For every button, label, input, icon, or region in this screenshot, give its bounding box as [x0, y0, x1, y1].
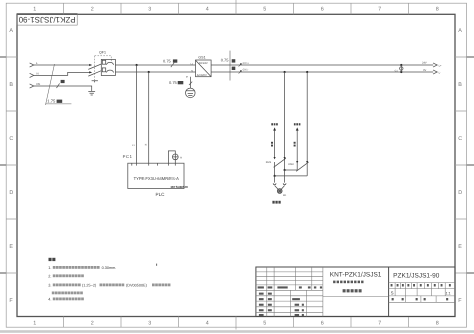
filter cap node dots — [400, 64, 402, 66]
svg-text:(1.25~2): (1.25~2) — [82, 283, 97, 287]
breaker pole 1 fixed contact arrow — [89, 64, 92, 66]
fold/centre marks right edge — [467, 57, 474, 273]
left table verticals upper — [267, 267, 312, 290]
middle section divider — [388, 267, 390, 317]
scale row verticals — [395, 289, 445, 296]
ground PE — [88, 91, 95, 95]
contact KM2 blade — [296, 162, 308, 171]
wire N with jog to breaker — [34, 72, 91, 75]
terminal L in — [30, 63, 34, 67]
junction dot branch link 1 — [284, 169, 286, 171]
sheet bottom grey band — [0, 330, 474, 333]
svg-text:E: E — [9, 244, 13, 250]
zone row ticks left strip — [6, 57, 17, 273]
svg-text:7: 7 — [378, 320, 381, 326]
wire branch2 terminal to contact — [296, 131, 298, 171]
wire L to breaker — [34, 64, 91, 66]
svg-text:1: 1 — [33, 320, 36, 326]
capacitor C1 — [400, 65, 402, 72]
terminal PE in — [30, 84, 34, 88]
cable slash 0.75 on L — [171, 63, 174, 67]
signature rows bold marks — [259, 293, 264, 295]
left table verticals lower — [267, 290, 307, 316]
svg-text:2.: 2. — [48, 273, 51, 278]
link wire contact2 to node — [285, 169, 298, 171]
power supply GS1 box — [196, 60, 212, 77]
fold/centre marks left edge — [0, 57, 6, 273]
bus 0V — [211, 71, 433, 73]
PLC pin ticks — [132, 163, 176, 165]
svg-text:C: C — [9, 136, 13, 142]
svg-text:2: 2 — [91, 320, 94, 326]
svg-text:GY1-: GY1- — [243, 69, 249, 72]
bold label N on PE wire — [61, 80, 65, 83]
breaker pole 2 fixed contact arrow — [89, 71, 92, 73]
panel boundary line — [229, 51, 231, 81]
label above arrow 2 — [294, 123, 296, 125]
lamp lead-ins — [275, 186, 285, 190]
svg-text:8: 8 — [436, 7, 439, 13]
PLC run lamp — [172, 154, 178, 160]
svg-text:4.: 4. — [48, 296, 51, 301]
right grid horizontals — [389, 283, 455, 303]
svg-text:GY1+: GY1+ — [243, 62, 250, 65]
connector plug 1 — [273, 183, 276, 184]
trip unit magnetic hump pole2 — [106, 70, 113, 72]
notes header bold — [49, 258, 52, 261]
svg-text:MITSUBISHI: MITSUBISHI — [171, 185, 189, 189]
middle section horizontal — [323, 296, 389, 298]
wire N breaker to GS1 — [115, 71, 195, 73]
svg-text:KM2: KM2 — [288, 163, 294, 166]
title block outer border — [256, 267, 455, 317]
trip unit thermal square pole2 — [102, 68, 105, 72]
svg-text:PZK1/JSJS1-90: PZK1/JSJS1-90 — [393, 273, 440, 280]
svg-text:0.75: 0.75 — [169, 80, 178, 85]
zone column ticks top strip — [64, 0, 409, 14]
contact KM1 arrowheads — [274, 157, 276, 159]
terminal arrow up branch 1 — [273, 127, 276, 130]
contact KM2 arrowheads — [296, 161, 298, 163]
svg-text:0.75: 0.75 — [221, 58, 230, 63]
zone row ticks right strip — [455, 57, 467, 273]
label above arrow 1 — [271, 123, 273, 125]
svg-text:1.: 1. — [48, 265, 51, 270]
drawing number box top-left — [17, 13, 77, 25]
svg-text:N: N — [37, 71, 39, 75]
label B2 on wire — [294, 142, 296, 144]
GS1 diagonal — [196, 60, 211, 76]
lamp EL under GS1 — [186, 88, 196, 98]
cable slash 0.75 lamp wire — [189, 82, 192, 85]
svg-text:1: 1 — [33, 7, 36, 13]
svg-text:0.75: 0.75 — [163, 58, 172, 63]
note line 3 continuation — [52, 292, 55, 295]
wire PE — [34, 86, 92, 91]
zone column ticks bottom strip — [64, 317, 409, 330]
svg-text:6: 6 — [321, 7, 324, 13]
svg-text:5: 5 — [263, 320, 266, 326]
svg-text:S: S — [391, 290, 394, 295]
wire branch1 terminal to contact — [274, 131, 276, 159]
link wire branch1 to drop2 — [275, 175, 308, 177]
left revision table horizontals — [256, 272, 323, 285]
svg-text:TYPE:FX3U-64MR/ES-A: TYPE:FX3U-64MR/ES-A — [134, 176, 180, 181]
terminal arrow up branch 2 — [296, 127, 299, 130]
svg-text:R: R — [180, 156, 182, 159]
PLC run lamp loop wire — [168, 151, 175, 163]
work lamp — [277, 189, 282, 194]
svg-text:L+: L+ — [439, 65, 442, 68]
right grid header marks — [391, 284, 393, 287]
lamp feed wires — [275, 170, 285, 183]
trip unit magnetic hump pole1 — [106, 62, 113, 64]
svg-text:3.: 3. — [48, 283, 51, 288]
svg-text:5: 5 — [263, 7, 266, 13]
right grid small cell verticals — [395, 283, 445, 289]
svg-text:PZK1/JSJS1-90: PZK1/JSJS1-90 — [18, 15, 75, 24]
terminal L+ out — [433, 63, 437, 67]
svg-text:A: A — [458, 28, 462, 34]
svg-text:AC220V: AC220V — [197, 74, 207, 77]
left section divider — [322, 267, 324, 317]
svg-text:3: 3 — [148, 7, 151, 13]
wire L1 down to PLC — [136, 65, 138, 163]
svg-text:D: D — [458, 190, 462, 196]
svg-text:24V: 24V — [422, 62, 427, 65]
svg-text:3: 3 — [148, 320, 151, 326]
wire L breaker to GS1 — [115, 64, 195, 66]
svg-text:PC1: PC1 — [123, 154, 133, 159]
svg-text:2: 2 — [91, 7, 94, 13]
terminal L- out — [433, 70, 437, 74]
contact KM1 blade — [274, 158, 286, 167]
wire branch1 below contact — [274, 162, 276, 176]
svg-text:0V: 0V — [423, 69, 426, 72]
sheet name bold CJK — [343, 289, 346, 292]
wire 0V drop 2 — [306, 72, 308, 176]
connector plug 2 — [283, 183, 286, 184]
svg-text:GS1: GS1 — [198, 55, 205, 59]
svg-text:N: N — [145, 144, 147, 147]
svg-text:6: 6 — [321, 320, 324, 326]
cable label underline — [46, 103, 72, 105]
svg-text:KM1: KM1 — [266, 161, 272, 164]
sheet count row verticals — [406, 296, 436, 302]
junction dot lamp branch 1 — [284, 71, 286, 73]
project name bold CJK — [333, 281, 335, 284]
svg-text:8: 8 — [436, 320, 439, 326]
svg-text:1.75: 1.75 — [47, 99, 56, 104]
bus 24V — [211, 64, 433, 66]
svg-text:A: A — [9, 28, 13, 34]
svg-text:E: E — [458, 244, 462, 250]
svg-text:1:1: 1:1 — [446, 292, 451, 296]
stray tick — [155, 264, 158, 266]
wire marker 24V — [239, 63, 242, 66]
label B1 on wire — [271, 142, 273, 144]
GS1 lamp feed wire — [190, 77, 192, 88]
breaker QF1 dashed linkage — [95, 56, 112, 80]
breaker pole 2 moving contact — [88, 71, 101, 76]
breaker pole 1 moving contact — [88, 64, 101, 69]
revision header bold marks — [258, 286, 264, 288]
svg-text:D: D — [9, 190, 13, 196]
svg-text:QF1: QF1 — [99, 51, 106, 55]
svg-text:(DV00500E): (DV00500E) — [126, 283, 148, 287]
cable marker slash 1.75mm — [46, 64, 55, 105]
junction dot N feed — [148, 71, 150, 73]
svg-text:0.30mm.: 0.30mm. — [102, 266, 117, 270]
bold label work light — [272, 201, 274, 204]
svg-text:7: 7 — [378, 7, 381, 13]
breaker operator bar — [92, 81, 98, 83]
junction dot lamp branch 2 — [306, 71, 308, 73]
svg-text:B: B — [458, 82, 462, 88]
terminal N in — [30, 73, 34, 77]
svg-text:PE: PE — [37, 82, 41, 86]
svg-text:KNT-PZK1/JSJS1: KNT-PZK1/JSJS1 — [330, 271, 382, 278]
svg-text:DC24V: DC24V — [199, 62, 208, 65]
wire 0V drop to contact KM1 — [284, 72, 286, 170]
PLC box U1 — [128, 163, 184, 188]
wire marker 0V — [239, 70, 242, 73]
svg-text:C: C — [458, 136, 462, 142]
trip unit thermal square pole1 — [102, 60, 105, 64]
sheet count row marks — [392, 298, 394, 300]
svg-text:L-: L- — [439, 72, 441, 75]
wire N down to PLC — [148, 72, 150, 163]
cable slash on PE — [57, 83, 60, 88]
junction dot L1 feed — [136, 64, 138, 66]
junction dot branch link 2 — [274, 175, 276, 177]
svg-text:4: 4 — [206, 320, 209, 326]
svg-text:M: M — [186, 75, 188, 78]
left table row separator — [256, 290, 323, 312]
svg-text:PLC: PLC — [156, 192, 166, 197]
svg-text:B: B — [9, 82, 13, 88]
svg-text:4: 4 — [206, 7, 209, 13]
breaker trip unit box — [101, 59, 115, 75]
